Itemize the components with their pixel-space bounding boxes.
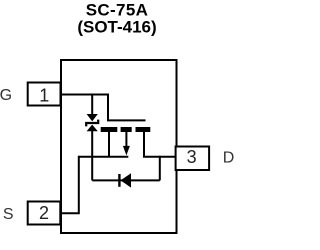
pin 1 box [28, 83, 61, 106]
MOSFET body arrow (points to source rail) [123, 146, 130, 156]
svg-text:SC-75A: SC-75A [86, 0, 149, 19]
svg-text:G: G [0, 87, 12, 104]
package outline rectangle [61, 60, 177, 233]
svg-text:(SOT-416): (SOT-416) [77, 18, 156, 37]
MOSFET body lead wire [125, 130, 127, 147]
MOSFET Q1 channel dash body segment [121, 127, 132, 132]
wire: zener bottom lead down to source rail and diode line [91, 131, 93, 181]
svg-text:S: S [3, 206, 14, 223]
wire: drain branch down to body diode [159, 156, 161, 181]
svg-text:3: 3 [187, 147, 197, 167]
pin 3 box [176, 147, 210, 171]
svg-text:2: 2 [39, 203, 49, 223]
zener diode D1 Z-bar [86, 120, 98, 127]
zener diode D1 top triangle (cathode up) [87, 114, 98, 121]
wire: gate from pin 1 to MOSFET gate bar [61, 95, 146, 121]
MOSFET Q1 channel dash source segment [101, 127, 118, 132]
svg-text:1: 1 [39, 86, 49, 106]
zener diode D1 bottom triangle (anode down) [87, 125, 98, 132]
body diode D2 cathode bar [118, 174, 120, 187]
wire: body diode line [92, 179, 160, 181]
wire: gate-side lead of ESD zener [91, 95, 93, 116]
MOSFET Q1 channel dash drain segment [136, 127, 151, 132]
wire: drain to pin 3 [143, 156, 176, 158]
svg-text:D: D [223, 149, 235, 166]
wire: MOSFET drain lead down [143, 130, 145, 157]
pin 2 box [28, 202, 61, 225]
wire: MOSFET source lead down to source rail [108, 130, 110, 157]
wire: source rail [79, 156, 129, 158]
body diode D2 triangle (anode at drain side, pointing left) [121, 173, 131, 187]
wire: source rail to pin 2 [60, 156, 79, 213]
